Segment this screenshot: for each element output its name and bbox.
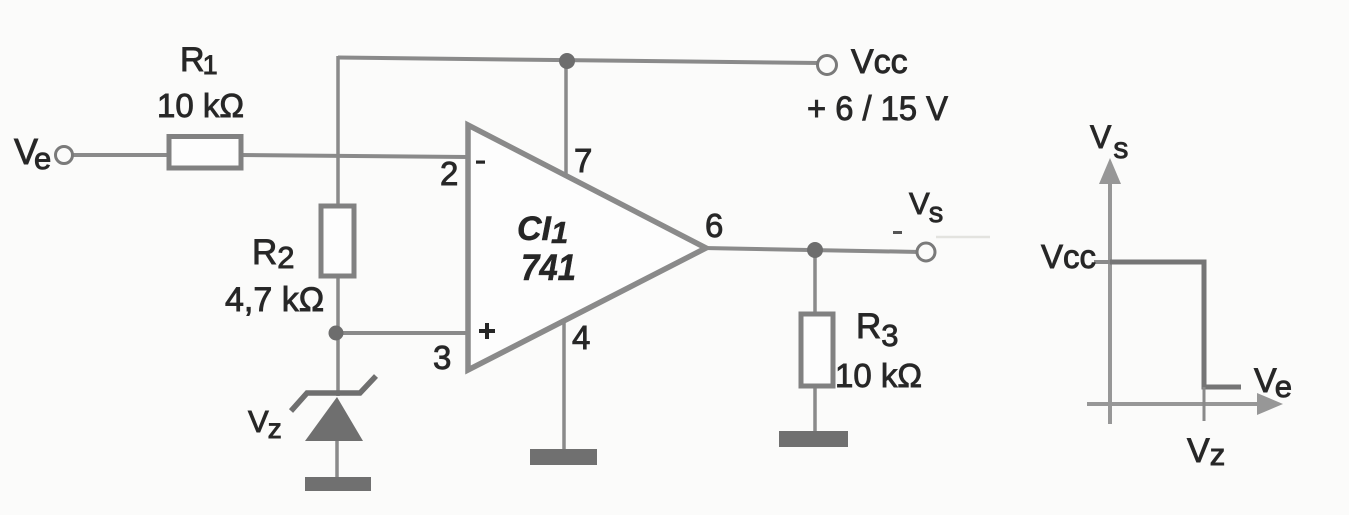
- svg-text:+ 6 / 15 V: + 6 / 15 V: [807, 90, 948, 128]
- svg-text:Vcc: Vcc: [1041, 238, 1096, 275]
- svg-text:4: 4: [572, 319, 590, 356]
- svg-text:741: 741: [521, 247, 576, 288]
- svg-text:Vcc: Vcc: [851, 43, 908, 81]
- svg-text:10 kΩ: 10 kΩ: [157, 87, 244, 124]
- svg-text:10 kΩ: 10 kΩ: [835, 357, 922, 394]
- svg-text:R2: R2: [252, 233, 295, 275]
- svg-text:Ve: Ve: [1254, 362, 1292, 404]
- svg-text:Vz: Vz: [1187, 432, 1225, 472]
- svg-text:CI1: CI1: [517, 210, 568, 250]
- svg-text:2: 2: [440, 155, 458, 192]
- svg-text:7: 7: [574, 142, 592, 179]
- svg-text:3: 3: [433, 339, 451, 376]
- svg-text:4,7 kΩ: 4,7 kΩ: [225, 281, 324, 319]
- svg-text:6: 6: [705, 207, 723, 244]
